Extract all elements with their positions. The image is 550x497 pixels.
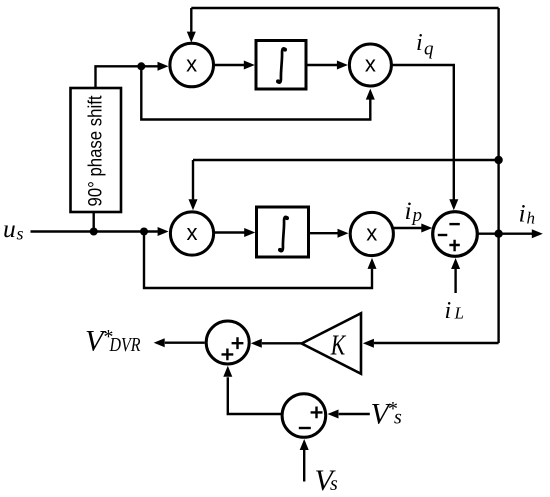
svg-text:q: q	[424, 39, 434, 60]
svg-text:i: i	[445, 298, 452, 324]
multiplier M2b	[350, 212, 393, 255]
svg-text:K: K	[330, 330, 346, 362]
wire iL input	[454, 269, 456, 293]
arrowhead into S1 top	[449, 199, 458, 210]
wire drop into M1a top	[190, 8, 192, 32]
arrowhead into M1a left	[158, 62, 169, 71]
summer S1 (ih = -iq - ip + iL)	[433, 212, 478, 257]
arrowhead into S3 right	[328, 410, 339, 419]
arrowhead into S2 right	[251, 339, 262, 348]
multiplier M2a	[170, 212, 213, 255]
90 degree phase shift box	[71, 88, 122, 212]
wire S2 output VDVR	[165, 342, 205, 344]
arrowhead into B2 left	[244, 228, 255, 237]
svg-text:p: p	[411, 205, 423, 226]
svg-text:s: s	[17, 224, 24, 244]
wire Vs input	[303, 450, 305, 482]
wire B1 to M1b	[306, 64, 337, 66]
summer S2 (VDVR)	[206, 321, 249, 364]
junction node feedback row2 at right vertical	[494, 156, 502, 164]
junction node P (phase-shifted branch)	[137, 62, 145, 70]
amplifier K triangle	[302, 313, 361, 374]
wire M1b output iq to summer S1 top	[391, 65, 453, 200]
arrowhead into M2b left	[338, 229, 349, 238]
wire us up into phase-shift box	[92, 213, 94, 232]
arrowhead into M2a left	[158, 227, 169, 236]
wire B2 to M2b	[309, 232, 338, 234]
arrowhead into S1 bottom (iL)	[451, 258, 460, 269]
wire branch from node P down and to M1b bottom	[141, 66, 370, 119]
arrowhead into S3 bottom (Vs)	[300, 439, 309, 450]
arrowhead into M1b bottom	[366, 89, 375, 100]
junction node at us below box	[90, 228, 98, 236]
svg-text:90° phase shift: 90° phase shift	[85, 95, 107, 206]
arrowhead into M2a top	[189, 199, 198, 210]
wire phase-shift output to M1a input	[96, 66, 158, 88]
arrowhead into S2 bottom	[223, 366, 232, 377]
arrowhead into M2b bottom	[368, 258, 377, 269]
wire S1 output ih	[477, 232, 532, 234]
svg-text:DVR: DVR	[109, 334, 141, 356]
svg-text:x: x	[187, 220, 198, 245]
svg-text:x: x	[365, 52, 376, 77]
junction node U (us branch)	[140, 228, 148, 236]
svg-text:h: h	[527, 208, 536, 227]
svg-text:i: i	[416, 30, 423, 56]
integrator B2	[257, 207, 309, 257]
svg-text:i: i	[519, 199, 526, 228]
junction node ih output	[494, 230, 502, 238]
arrowhead ih output	[532, 229, 543, 238]
svg-text:L: L	[454, 304, 464, 323]
wire M1a to integrator B1	[214, 64, 244, 66]
wire M2a to integrator B2	[214, 231, 245, 233]
svg-text:x: x	[366, 221, 377, 246]
arrowhead into B1 left	[244, 61, 255, 70]
wire ih down to amplifier K	[374, 342, 499, 344]
wire top feedback line from right vertical to multiplier M1a	[191, 7, 498, 9]
wire S3 output to S2 bottom	[228, 377, 282, 414]
summer S3 (Vs* - Vs)	[282, 394, 326, 438]
arrowhead into M1b left	[337, 61, 348, 70]
wire M2b output ip to summer S1	[393, 227, 421, 229]
svg-text:x: x	[186, 52, 197, 77]
arrowhead into K right	[363, 339, 374, 348]
wire K output to summer S2	[262, 342, 302, 344]
wire us input	[31, 230, 158, 232]
wire ih feedback row2 to M2a top	[193, 160, 499, 199]
arrowhead into M1a top	[187, 32, 196, 43]
svg-text:i: i	[405, 196, 412, 225]
multiplier M1a	[170, 43, 214, 87]
svg-text:u: u	[3, 214, 16, 243]
wire Vs-ref input	[339, 413, 370, 415]
multiplier M1b	[349, 44, 391, 86]
arrowhead VDVR output left	[154, 338, 165, 347]
svg-text:s: s	[394, 407, 402, 429]
svg-text:s: s	[330, 473, 338, 495]
integrator B1	[256, 41, 306, 90]
wire right vertical feedback (ih)	[497, 8, 499, 343]
arrowhead into S1 left	[421, 224, 432, 233]
wire branch from node U down and to M2b bottom	[144, 232, 372, 289]
